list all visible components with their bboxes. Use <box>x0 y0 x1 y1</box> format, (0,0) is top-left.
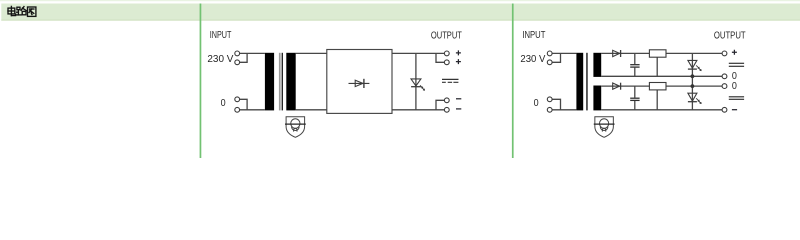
svg-text:INPUT: INPUT <box>210 30 232 41</box>
wire input bottom rail <box>240 109 265 111</box>
wire resistor R2 shunt lead <box>656 90 658 110</box>
output terminal -b <box>444 107 449 112</box>
safety transformer shield symbol 2 <box>594 117 615 138</box>
DC symbol = lower (c2) <box>729 97 744 100</box>
wire secondary top rail to rectifier <box>296 52 327 54</box>
wire input top-pair jog <box>240 53 248 62</box>
diode D3 (lower branch) <box>613 83 621 90</box>
junction dot rail3/LED column <box>691 84 695 88</box>
wire rail 2 (0 upper) <box>601 75 722 77</box>
terminal 230V-b (c2) <box>547 60 552 65</box>
wire input top rail <box>552 52 576 54</box>
LED V2 emission arrows <box>696 65 701 71</box>
capacitor C2 plates <box>630 98 639 100</box>
output terminal +a <box>444 51 449 56</box>
wire input top rail <box>240 52 265 54</box>
terminal 0-a (c2) <box>547 97 552 102</box>
terminal 0-b <box>235 107 240 112</box>
transformer T2 primary winding bar <box>576 53 583 111</box>
svg-text:OUTPUT: OUTPUT <box>431 30 462 41</box>
diode D2 (upper branch) <box>613 50 621 57</box>
terminal 230V-b <box>235 60 240 65</box>
header title 电路图 (drawn as paths) <box>8 6 36 16</box>
svg-text:230 V: 230 V <box>520 54 545 65</box>
wire input top-pair jog <box>552 53 560 62</box>
wire LED column vertical <box>691 53 693 109</box>
wire capacitor C1 leads <box>634 53 636 76</box>
svg-text:0: 0 <box>221 98 226 109</box>
output terminal - (c2) <box>722 107 727 112</box>
capacitor C1 plates <box>630 65 639 67</box>
header green bar <box>1 4 800 21</box>
wire rail 1 (+) <box>601 52 722 54</box>
header bar darker bottom edge <box>1 20 800 21</box>
terminal 0-b (c2) <box>547 107 552 112</box>
minus sign 1 <box>456 98 461 100</box>
vertical green separator line 2 <box>512 4 514 159</box>
plus sign 1 <box>456 50 461 109</box>
transformer T1 core line 1 <box>279 53 281 111</box>
transformer T1 secondary winding bar <box>286 53 295 111</box>
svg-text:OUTPUT: OUTPUT <box>714 30 746 41</box>
wire input bottom rail <box>552 109 576 111</box>
wire output minus jog <box>436 100 444 110</box>
svg-text:0: 0 <box>534 98 539 109</box>
resistor R2 <box>649 83 666 90</box>
wire LED branch vertical <box>415 53 417 109</box>
wire secondary bottom rail to rectifier <box>296 109 327 111</box>
minus sign (c2) <box>732 109 737 111</box>
电 <box>8 6 16 15</box>
DC symbol = upper (c2) <box>729 63 744 66</box>
output terminal 0 lower (c2) <box>722 84 727 89</box>
LED V1 emission arrows <box>420 85 425 90</box>
wire rail 4 (-) <box>601 109 722 111</box>
output terminal +b <box>444 60 449 65</box>
top faint green row <box>0 0 800 1</box>
LED V3 (lower) <box>688 93 697 102</box>
wire rectifier to output top rail <box>392 52 444 54</box>
terminal 230V-a <box>235 51 240 56</box>
wire capacitor C2 leads <box>634 86 636 110</box>
图 <box>28 7 36 16</box>
wire output plus jog <box>436 53 444 62</box>
output terminal -a <box>444 98 449 103</box>
transformer T2 core line <box>586 53 588 111</box>
diode D1 inside rectifier <box>349 79 370 88</box>
plus sign 2 <box>456 59 461 64</box>
vertical green separator line 1 <box>200 4 202 159</box>
DC symbol (solid over dashed) <box>442 79 459 82</box>
transformer T2 secondary winding bar lower <box>593 86 601 111</box>
output terminal + (c2) <box>722 51 727 56</box>
junction dot rail2/LED column <box>691 74 695 78</box>
wire input bottom-pair jog <box>552 99 560 110</box>
transformer T1 primary winding bar <box>265 53 274 111</box>
wire rectifier to output bottom rail <box>392 109 444 111</box>
resistor R1 <box>649 50 666 57</box>
wire rail 3 (0 lower) <box>601 85 722 87</box>
wire resistor R1 shunt lead <box>656 57 658 76</box>
rectifier block U1 <box>327 50 392 114</box>
svg-text:230 V: 230 V <box>207 54 233 65</box>
safety transformer shield symbol 1 <box>285 117 306 138</box>
terminal 0-a <box>235 97 240 102</box>
LED V3 emission arrows <box>696 98 701 104</box>
wire input bottom-pair jog <box>240 99 248 110</box>
terminal 230V-a (c2) <box>547 51 552 56</box>
svg-text:INPUT: INPUT <box>522 30 545 41</box>
page background <box>0 0 800 158</box>
svg-text:0: 0 <box>732 81 737 92</box>
LED V2 (upper) <box>688 60 697 69</box>
transformer T2 secondary winding bar upper <box>593 53 601 77</box>
plus sign (c2) <box>732 50 737 110</box>
transformer T1 core line 2 <box>282 53 283 111</box>
output terminal 0 upper (c2) <box>722 74 727 79</box>
LED V1 <box>411 79 421 87</box>
路 <box>17 7 27 15</box>
minus sign 2 <box>456 108 461 110</box>
